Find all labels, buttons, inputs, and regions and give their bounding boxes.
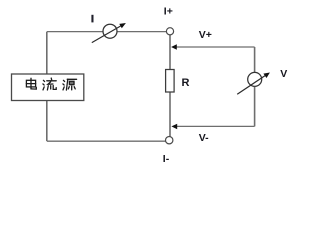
sense lead V+ : wire from voltmeter top with left arrow into node I+ [171,44,255,72]
sense lead V- : wire from voltmeter bottom with left arrow into node I- [171,87,254,129]
svg-text:V: V [280,68,287,80]
svg-text:V-: V- [199,132,209,144]
svg-text:I-: I- [163,153,170,165]
svg-text:R: R [182,77,190,89]
wire bottom horizontal from source to node I- [47,140,166,142]
current source box [12,74,84,101]
node I- [166,137,173,144]
wire top horizontal from source to node I+ [47,31,167,33]
svg-text:I+: I+ [164,6,173,18]
glyph 电 [26,78,36,89]
label I (ammeter) [91,15,93,23]
ammeter (circle with arrow) [92,23,126,43]
glyph 流 [43,78,56,90]
resistor R [166,70,175,93]
wire vertical from node I+ down to resistor R [169,35,171,70]
svg-text:V+: V+ [199,29,212,41]
node I+ [166,28,173,35]
wire vertical from resistor R down to node I- [169,92,171,138]
voltmeter (circle with arrow) [237,72,270,94]
glyph 源 [63,79,77,90]
wire left vertical from source box down to bottom wire [46,101,48,142]
label 电流源 (current source), hand-drawn glyphs [26,78,76,90]
wire left vertical from top wire down to source box [46,32,48,74]
